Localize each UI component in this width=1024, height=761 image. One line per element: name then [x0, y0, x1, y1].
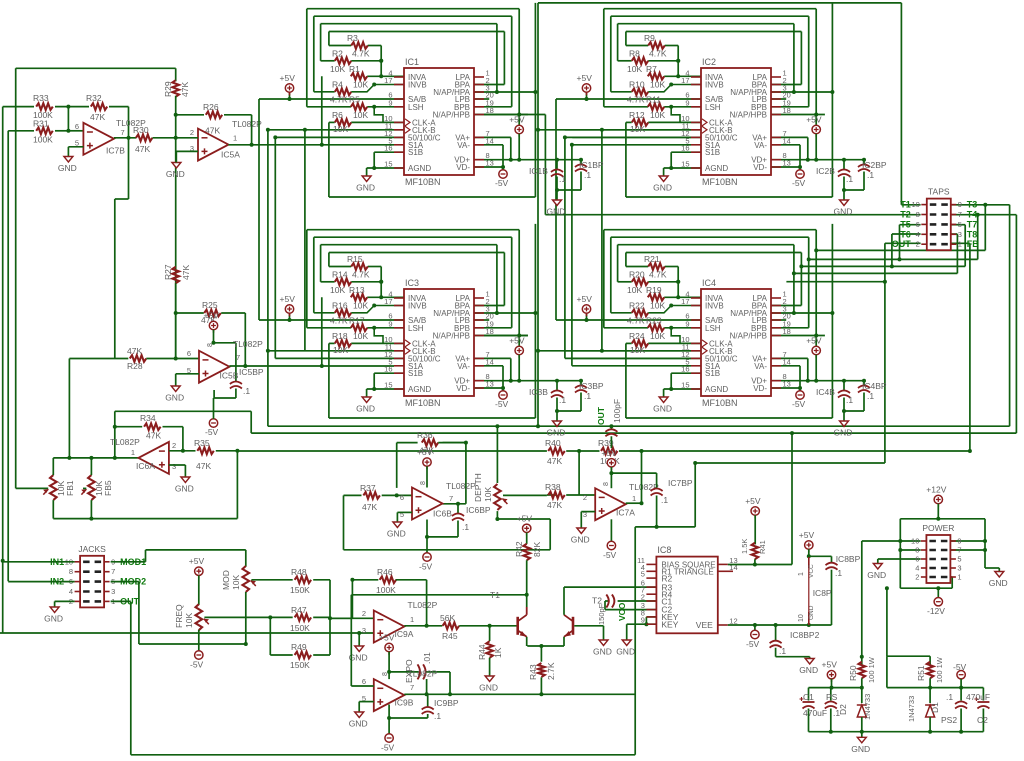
svg-text:R6: R6 [332, 110, 343, 120]
svg-text:9: 9 [957, 537, 961, 546]
svg-text:10K: 10K [184, 613, 194, 628]
svg-text:47K: 47K [547, 500, 562, 510]
svg-text:10K: 10K [333, 124, 348, 134]
svg-text:.1: .1 [867, 391, 874, 401]
svg-text:VD-: VD- [456, 163, 470, 172]
svg-text:8: 8 [420, 481, 427, 485]
svg-text:TL082P: TL082P [232, 119, 262, 129]
svg-text:7: 7 [111, 567, 115, 576]
svg-text:10K: 10K [330, 285, 345, 295]
svg-text:IC4BP: IC4BP [862, 381, 887, 391]
svg-text:IC9B: IC9B [395, 698, 414, 708]
svg-text:17: 17 [681, 76, 689, 85]
svg-text:TL082P: TL082P [116, 118, 146, 128]
svg-text:TL082P: TL082P [408, 669, 438, 679]
svg-text:S1B: S1B [705, 369, 720, 378]
svg-text:R5: R5 [349, 94, 360, 104]
svg-text:10K: 10K [650, 79, 665, 89]
svg-text:GND: GND [851, 744, 870, 754]
svg-text:TL082P: TL082P [110, 437, 140, 447]
svg-text:GND: GND [58, 163, 77, 173]
svg-text:IC2BP: IC2BP [862, 160, 887, 170]
svg-text:.1: .1 [846, 395, 853, 405]
svg-text:IC3BP: IC3BP [579, 381, 604, 391]
svg-text:TL082P: TL082P [233, 339, 263, 349]
svg-text:AGND: AGND [705, 385, 728, 394]
svg-text:1: 1 [233, 134, 237, 143]
svg-text:FB1: FB1 [65, 480, 75, 496]
svg-text:INVB: INVB [705, 81, 724, 90]
svg-text:+5V: +5V [509, 336, 525, 346]
svg-text:VEE: VEE [696, 620, 713, 630]
svg-text:PS: PS [826, 692, 838, 702]
svg-text:VD-: VD- [753, 384, 767, 393]
svg-text:T5: T5 [900, 219, 911, 229]
svg-text:KEY: KEY [661, 620, 678, 630]
svg-text:6: 6 [187, 349, 191, 358]
svg-text:R49: R49 [291, 642, 307, 652]
svg-text:10K: 10K [231, 575, 241, 590]
svg-text:IC1BP: IC1BP [579, 160, 604, 170]
svg-text:R4: R4 [332, 79, 343, 89]
svg-text:.1: .1 [559, 174, 566, 184]
svg-text:VA-: VA- [754, 141, 767, 150]
svg-text:DEPTH: DEPTH [473, 473, 483, 502]
svg-text:9: 9 [388, 319, 392, 328]
svg-text:.1: .1 [661, 495, 668, 505]
svg-text:6: 6 [915, 555, 919, 564]
svg-text:R2: R2 [332, 48, 343, 58]
svg-text:10K: 10K [353, 79, 368, 89]
svg-text:IC2: IC2 [702, 57, 716, 67]
svg-text:18: 18 [783, 327, 791, 336]
svg-text:.1: .1 [559, 395, 566, 405]
svg-text:-5V: -5V [603, 550, 617, 560]
svg-text:7: 7 [449, 494, 453, 503]
svg-text:R29: R29 [163, 81, 173, 97]
svg-text:IC6BP: IC6BP [466, 505, 491, 515]
svg-text:47K: 47K [127, 346, 142, 356]
svg-text:+5V: +5V [280, 294, 296, 304]
svg-text:R34: R34 [140, 413, 156, 423]
svg-text:R18: R18 [332, 331, 348, 341]
svg-text:47K: 47K [146, 431, 161, 441]
svg-text:13: 13 [783, 159, 791, 168]
svg-text:1: 1 [632, 494, 636, 503]
svg-text:PS2: PS2 [941, 715, 957, 725]
svg-text:10K: 10K [627, 285, 642, 295]
svg-text:7: 7 [957, 546, 961, 555]
svg-text:+5V: +5V [577, 294, 593, 304]
svg-text:470uF: 470uF [966, 692, 990, 702]
svg-text:16: 16 [681, 365, 689, 374]
svg-text:IC8BP2: IC8BP2 [790, 630, 820, 640]
svg-text:R23: R23 [646, 315, 662, 325]
svg-text:+5V: +5V [799, 530, 815, 540]
svg-text:AGND: AGND [408, 385, 431, 394]
svg-text:GND: GND [356, 183, 375, 193]
svg-text:R48: R48 [291, 567, 307, 577]
svg-text:4.7K: 4.7K [649, 269, 667, 279]
svg-text:10K: 10K [650, 300, 665, 310]
svg-text:GND: GND [653, 404, 672, 414]
svg-text:R14: R14 [332, 269, 348, 279]
svg-text:10K: 10K [630, 345, 645, 355]
svg-text:10: 10 [798, 614, 805, 622]
svg-text:LSH: LSH [705, 103, 721, 112]
svg-text:100 1W: 100 1W [935, 656, 944, 683]
svg-text:.1: .1 [584, 170, 591, 180]
svg-text:GND: GND [387, 529, 406, 539]
svg-text:-5V: -5V [205, 427, 219, 437]
svg-text:6: 6 [75, 122, 79, 131]
svg-text:56K: 56K [440, 613, 455, 623]
svg-text:GND: GND [356, 404, 375, 414]
svg-text:+5V: +5V [509, 115, 525, 125]
svg-text:14: 14 [783, 357, 791, 366]
svg-text:+5V: +5V [379, 633, 395, 643]
svg-text:13: 13 [486, 380, 494, 389]
svg-text:OUT: OUT [596, 406, 606, 425]
svg-text:.1: .1 [434, 711, 441, 721]
svg-text:47K: 47K [90, 112, 105, 122]
svg-text:+5V: +5V [745, 496, 761, 506]
svg-text:8: 8 [916, 210, 920, 219]
svg-text:7: 7 [236, 353, 240, 362]
svg-text:14: 14 [486, 357, 494, 366]
svg-text:100K: 100K [33, 135, 53, 145]
svg-text:1: 1 [958, 240, 962, 249]
svg-text:6: 6 [916, 220, 920, 229]
svg-text:15: 15 [681, 160, 689, 169]
svg-text:R47: R47 [291, 605, 307, 615]
svg-text:6: 6 [400, 493, 404, 502]
svg-text:R24: R24 [629, 331, 645, 341]
svg-text:3: 3 [957, 564, 961, 573]
svg-text:GND: GND [867, 570, 886, 580]
svg-text:GND: GND [479, 683, 498, 693]
svg-text:R43: R43 [528, 664, 538, 680]
svg-text:3: 3 [362, 626, 366, 635]
svg-text:5: 5 [641, 570, 645, 579]
svg-text:R42: R42 [514, 541, 524, 557]
svg-text:GND: GND [653, 183, 672, 193]
svg-text:AGND: AGND [408, 164, 431, 173]
svg-text:IC9BP: IC9BP [434, 698, 459, 708]
svg-text:1: 1 [957, 573, 961, 582]
svg-text:4.7K: 4.7K [627, 315, 645, 325]
svg-text:C1: C1 [803, 692, 814, 702]
svg-text:MF10BN: MF10BN [405, 177, 441, 187]
svg-text:R8: R8 [629, 48, 640, 58]
svg-text:7: 7 [958, 210, 962, 219]
svg-text:IC6B: IC6B [433, 509, 452, 519]
svg-text:100K: 100K [376, 585, 396, 595]
svg-text:5: 5 [957, 555, 961, 564]
svg-text:R3: R3 [347, 33, 358, 43]
svg-text:IC4: IC4 [702, 278, 716, 288]
svg-text:8: 8 [69, 567, 73, 576]
svg-text:IC3: IC3 [405, 278, 419, 288]
svg-text:-5V: -5V [495, 178, 509, 188]
svg-text:9: 9 [958, 200, 962, 209]
svg-text:2: 2 [190, 128, 194, 137]
svg-text:GND: GND [547, 428, 566, 438]
svg-text:IC1: IC1 [405, 57, 419, 67]
svg-text:82K: 82K [532, 542, 542, 557]
svg-text:VD-: VD- [456, 384, 470, 393]
svg-text:S1B: S1B [705, 148, 720, 157]
svg-text:GND: GND [166, 169, 185, 179]
svg-text:4.7K: 4.7K [330, 94, 348, 104]
svg-text:15: 15 [681, 381, 689, 390]
svg-text:+5V: +5V [806, 336, 822, 346]
svg-text:4: 4 [915, 564, 919, 573]
svg-text:+5V: +5V [577, 73, 593, 83]
svg-text:47K: 47K [196, 461, 211, 471]
svg-text:-5V: -5V [190, 660, 204, 670]
svg-text:VA-: VA- [754, 362, 767, 371]
svg-text:10K: 10K [650, 331, 665, 341]
svg-text:R20: R20 [629, 269, 645, 279]
svg-text:16: 16 [384, 144, 392, 153]
svg-text:47K: 47K [181, 265, 191, 280]
svg-text:4: 4 [916, 230, 920, 239]
svg-text:IC2B: IC2B [816, 166, 835, 176]
svg-text:9: 9 [388, 98, 392, 107]
svg-text:IC7BP: IC7BP [668, 478, 693, 488]
svg-text:18: 18 [486, 106, 494, 115]
svg-text:9: 9 [685, 98, 689, 107]
svg-text:INVB: INVB [408, 302, 427, 311]
svg-text:+5V: +5V [189, 556, 205, 566]
svg-text:.1: .1 [243, 386, 250, 396]
svg-text:INVB: INVB [408, 81, 427, 90]
svg-text:7: 7 [121, 128, 125, 137]
svg-text:T7: T7 [967, 219, 978, 229]
svg-text:9: 9 [641, 616, 645, 625]
svg-text:+5V: +5V [517, 513, 533, 523]
svg-text:MF10BN: MF10BN [702, 398, 738, 408]
svg-text:14: 14 [486, 136, 494, 145]
svg-text:R26: R26 [203, 102, 219, 112]
svg-text:LSH: LSH [408, 103, 424, 112]
svg-text:150pF: 150pF [597, 603, 606, 625]
svg-text:GND: GND [616, 647, 635, 657]
svg-text:MOD: MOD [221, 570, 231, 590]
svg-text:LSH: LSH [705, 324, 721, 333]
svg-text:T1: T1 [900, 200, 911, 210]
svg-text:8: 8 [915, 546, 919, 555]
svg-text:1: 1 [798, 572, 805, 576]
svg-text:10K: 10K [353, 300, 368, 310]
svg-text:9: 9 [685, 319, 689, 328]
svg-text:5: 5 [400, 510, 404, 519]
svg-text:IC9A: IC9A [395, 629, 414, 639]
svg-text:8: 8 [382, 672, 389, 676]
svg-text:R31: R31 [33, 119, 49, 129]
svg-text:R22: R22 [629, 300, 645, 310]
svg-text:1K: 1K [493, 647, 503, 658]
svg-text:2: 2 [915, 573, 919, 582]
svg-text:10K: 10K [630, 124, 645, 134]
svg-text:100 1W: 100 1W [867, 656, 876, 683]
svg-text:3: 3 [958, 230, 962, 239]
svg-text:150K: 150K [290, 585, 310, 595]
svg-text:R50: R50 [848, 665, 858, 681]
svg-text:16: 16 [681, 144, 689, 153]
svg-text:R19: R19 [646, 285, 662, 295]
svg-text:17: 17 [384, 297, 392, 306]
svg-text:IC3B: IC3B [529, 387, 548, 397]
svg-text:IC8: IC8 [657, 545, 671, 555]
svg-text:R37: R37 [360, 483, 376, 493]
svg-text:IC8P: IC8P [813, 588, 832, 598]
svg-text:FREQ: FREQ [174, 604, 184, 628]
svg-text:T4: T4 [967, 210, 978, 220]
svg-text:47K: 47K [547, 456, 562, 466]
svg-text:4.7K: 4.7K [330, 315, 348, 325]
svg-text:GND: GND [349, 719, 368, 729]
svg-text:GND: GND [44, 614, 63, 624]
svg-text:LSH: LSH [408, 324, 424, 333]
svg-text:150K: 150K [290, 623, 310, 633]
svg-text:47K: 47K [135, 144, 150, 154]
svg-text:T6: T6 [900, 229, 911, 239]
svg-text:-5V: -5V [381, 743, 395, 753]
svg-text:R16: R16 [332, 300, 348, 310]
svg-text:1: 1 [410, 615, 414, 624]
svg-text:10K: 10K [353, 110, 368, 120]
svg-text:GND: GND [834, 428, 853, 438]
svg-text:S1B: S1B [408, 148, 423, 157]
svg-text:100pF: 100pF [612, 399, 622, 423]
svg-text:INVB: INVB [705, 302, 724, 311]
svg-text:14: 14 [783, 136, 791, 145]
svg-text:2: 2 [916, 240, 920, 249]
svg-text:IC1B: IC1B [529, 166, 548, 176]
svg-text:-12V: -12V [927, 606, 945, 616]
svg-text:N/AP/HPB: N/AP/HPB [433, 332, 470, 341]
svg-text:150K: 150K [290, 660, 310, 670]
svg-text:10K: 10K [483, 487, 493, 502]
svg-text:R21: R21 [644, 254, 660, 264]
svg-text:17: 17 [384, 76, 392, 85]
svg-text:GND: GND [165, 393, 184, 403]
svg-text:R25: R25 [202, 300, 218, 310]
svg-text:5: 5 [958, 220, 962, 229]
svg-text:.1: .1 [946, 692, 953, 702]
svg-text:10K: 10K [333, 345, 348, 355]
svg-text:10K: 10K [353, 331, 368, 341]
svg-text:+5V: +5V [280, 73, 296, 83]
svg-text:4: 4 [69, 587, 73, 596]
svg-text:D1: D1 [930, 702, 940, 713]
svg-text:+5V: +5V [204, 311, 220, 321]
svg-text:R27: R27 [163, 264, 173, 280]
svg-text:2.7K: 2.7K [546, 662, 556, 680]
svg-text:R35: R35 [194, 438, 210, 448]
svg-text:R41: R41 [758, 540, 767, 554]
svg-text:GND: GND [571, 535, 590, 545]
svg-text:13: 13 [486, 159, 494, 168]
svg-text:GND: GND [799, 665, 818, 675]
svg-text:.1: .1 [835, 568, 842, 578]
svg-text:+5V: +5V [417, 447, 433, 457]
svg-text:GND: GND [593, 647, 612, 657]
svg-text:6: 6 [362, 677, 366, 686]
svg-text:MF10BN: MF10BN [405, 398, 441, 408]
svg-text:R10: R10 [629, 79, 645, 89]
svg-text:FB: FB [967, 239, 979, 249]
svg-text:.1: .1 [462, 522, 469, 532]
svg-text:1N4733: 1N4733 [907, 696, 916, 722]
svg-text:1N4733: 1N4733 [863, 694, 872, 720]
svg-text:8: 8 [603, 482, 610, 486]
svg-text:.1: .1 [867, 170, 874, 180]
svg-text:IC8BP: IC8BP [836, 554, 861, 564]
svg-text:GND: GND [989, 578, 1008, 588]
svg-text:TL082P: TL082P [446, 481, 476, 491]
svg-text:2: 2 [583, 493, 587, 502]
svg-text:3: 3 [111, 587, 115, 596]
svg-text:POWER: POWER [922, 523, 954, 533]
svg-text:R40: R40 [545, 438, 561, 448]
svg-text:R32: R32 [86, 93, 102, 103]
svg-text:N/AP/HPB: N/AP/HPB [730, 332, 767, 341]
svg-text:VCO: VCO [617, 602, 627, 621]
svg-text:.1: .1 [779, 646, 786, 656]
svg-text:R45: R45 [442, 631, 458, 641]
svg-text:N/AP/HPB: N/AP/HPB [730, 111, 767, 120]
svg-text:.1: .1 [846, 174, 853, 184]
svg-text:7: 7 [410, 683, 414, 692]
svg-text:-5V: -5V [746, 639, 760, 649]
svg-text:1.5K: 1.5K [740, 539, 749, 554]
svg-text:R28: R28 [127, 361, 143, 371]
svg-text:IC5B: IC5B [220, 371, 239, 381]
svg-text:10K: 10K [330, 64, 345, 74]
svg-text:R17: R17 [349, 315, 365, 325]
svg-text:R7: R7 [646, 64, 657, 74]
svg-text:TAPS: TAPS [928, 187, 950, 197]
svg-text:R15: R15 [347, 254, 363, 264]
svg-text:T3: T3 [967, 200, 978, 210]
svg-text:+12V: +12V [926, 485, 946, 495]
svg-text:JACKS: JACKS [78, 544, 106, 554]
svg-text:C2: C2 [977, 715, 988, 725]
svg-text:R46: R46 [377, 567, 393, 577]
svg-text:4.7K: 4.7K [649, 48, 667, 58]
svg-text:R11: R11 [646, 94, 661, 104]
svg-text:18: 18 [783, 106, 791, 115]
svg-text:15: 15 [384, 160, 392, 169]
svg-text:47K: 47K [362, 502, 377, 512]
svg-text:GND: GND [834, 207, 853, 217]
svg-text:-5V: -5V [495, 399, 509, 409]
svg-text:N/AP/HPB: N/AP/HPB [433, 111, 470, 120]
svg-text:+5V: +5V [601, 448, 617, 458]
svg-text:4.7K: 4.7K [627, 94, 645, 104]
svg-text:13: 13 [783, 380, 791, 389]
svg-text:IC5BP: IC5BP [239, 367, 264, 377]
svg-text:.1: .1 [584, 391, 591, 401]
svg-text:IC7B: IC7B [106, 146, 125, 156]
svg-text:15: 15 [384, 381, 392, 390]
svg-text:R44: R44 [477, 644, 487, 660]
svg-text:+5V: +5V [806, 115, 822, 125]
svg-text:GND: GND [175, 484, 194, 494]
